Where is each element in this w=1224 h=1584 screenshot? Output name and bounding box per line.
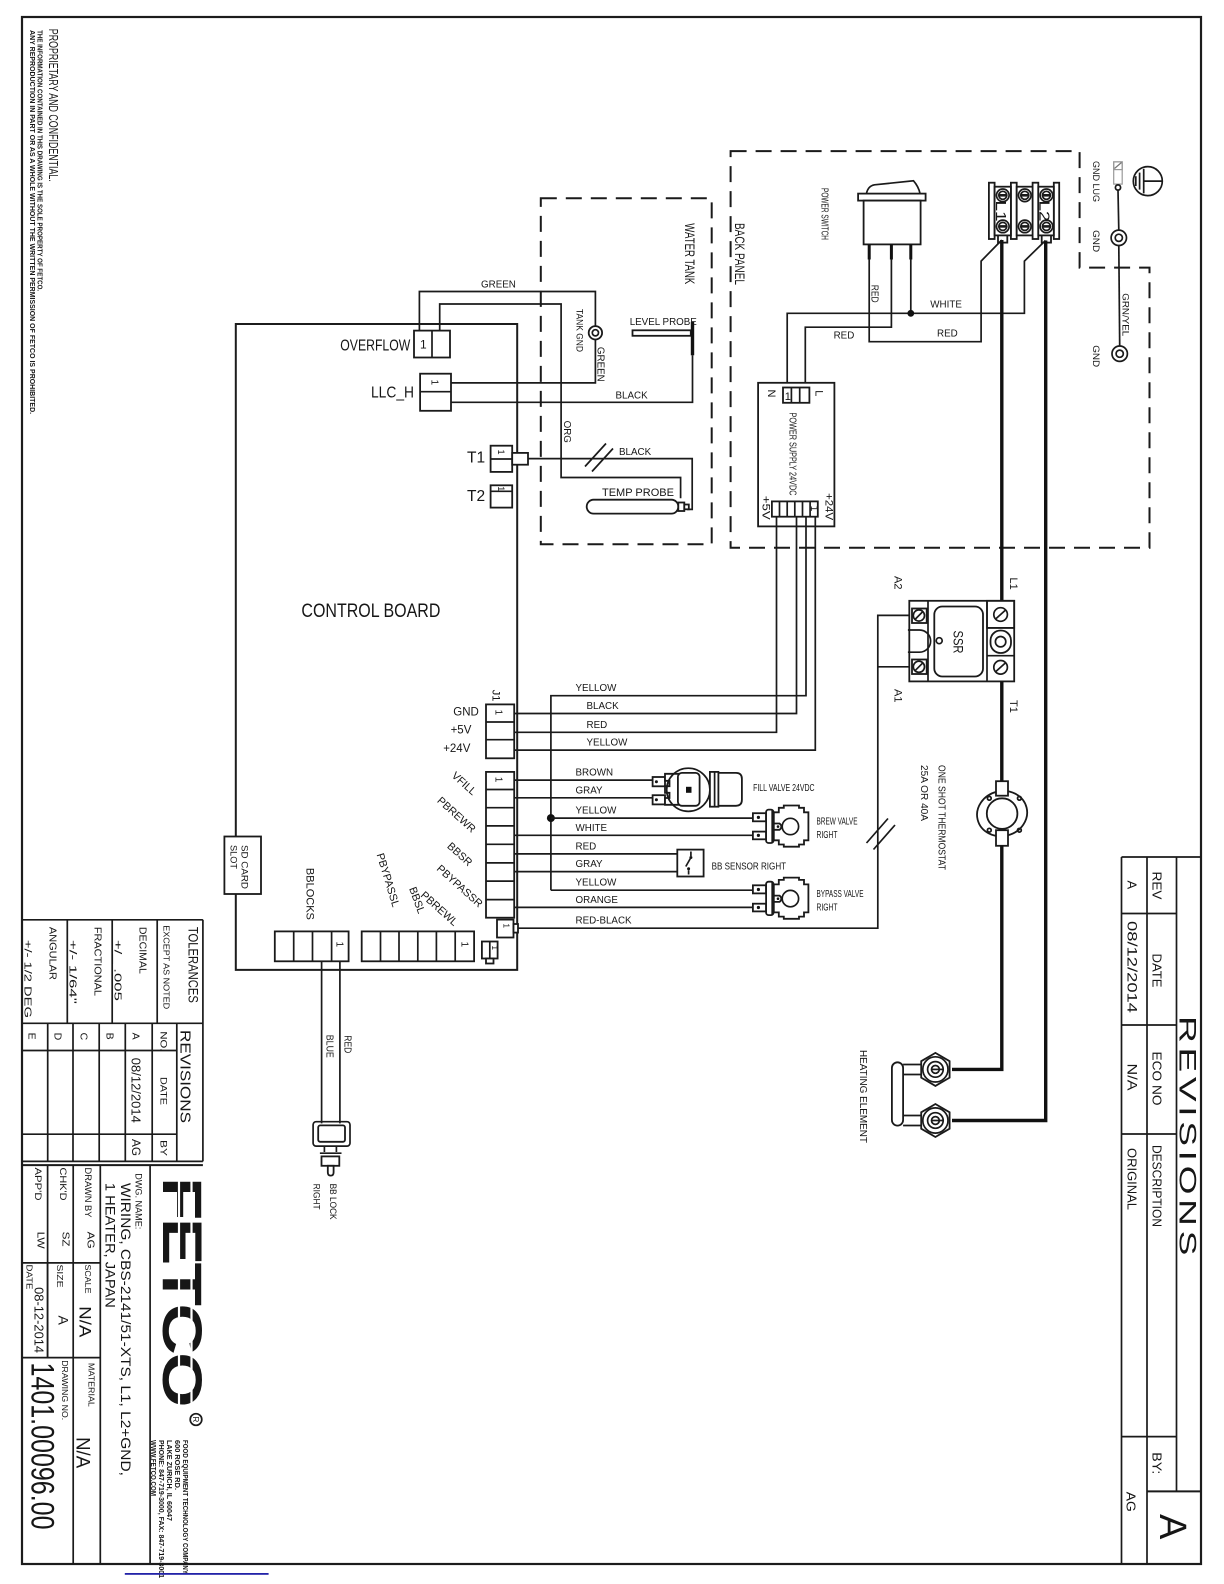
svg-text:DWG. NAME:: DWG. NAME: bbox=[134, 1173, 144, 1229]
svg-text:ANY REPRODUCTION IN PART OR AS: ANY REPRODUCTION IN PART OR AS A WHOLE W… bbox=[28, 30, 35, 414]
svg-text:FILL VALVE 24VDC: FILL VALVE 24VDC bbox=[753, 783, 815, 794]
svg-text:CHK'D: CHK'D bbox=[58, 1168, 68, 1202]
wire org from OVERFLOW pin2 down to temp probe bbox=[440, 304, 681, 498]
svg-text:1: 1 bbox=[459, 942, 470, 948]
terminal screws bbox=[997, 189, 1053, 233]
svg-text:SD CARD: SD CARD bbox=[240, 845, 250, 890]
svg-text:A: A bbox=[1151, 1514, 1193, 1540]
thick wire thermostat to heating element bbox=[952, 846, 1002, 1070]
wire yellow PSU to valves vertical net bbox=[551, 517, 806, 891]
svg-text:DATE: DATE bbox=[1150, 954, 1165, 988]
svg-text:BLUE: BLUE bbox=[324, 1035, 335, 1058]
wire white L2 to switch pin3 and PSU N bbox=[787, 241, 1045, 388]
wire gray J1-6 to bb sensor bbox=[514, 871, 677, 873]
crossover slashes on black wire bbox=[585, 444, 606, 467]
PSU input connector bbox=[783, 388, 809, 403]
svg-text:DESCRIPTION: DESCRIPTION bbox=[1150, 1145, 1165, 1227]
wire orange J1-8 to bypass valve bbox=[514, 906, 753, 908]
wire grn/yel ring1 to ring2 bbox=[1118, 246, 1121, 347]
connector left 6 pins bbox=[362, 931, 474, 961]
wire gray J1-2 to fill valve bbox=[514, 797, 652, 799]
title block grid bbox=[22, 1165, 203, 1564]
svg-text:GRAY: GRAY bbox=[576, 859, 604, 870]
svg-text:1: 1 bbox=[490, 946, 499, 951]
wire black from LLC_H pin2 to level probe bbox=[451, 355, 693, 402]
svg-text:+5V: +5V bbox=[451, 725, 472, 737]
svg-text:DATE: DATE bbox=[158, 1077, 169, 1105]
svg-text:BLACK: BLACK bbox=[587, 701, 620, 712]
svg-text:BLACK: BLACK bbox=[619, 447, 652, 458]
svg-text:RIGHT: RIGHT bbox=[817, 902, 838, 913]
svg-text:T1: T1 bbox=[1007, 700, 1019, 713]
svg-text:WATER TANK: WATER TANK bbox=[682, 223, 697, 284]
thick wire L1 down to SSR bbox=[1000, 240, 1003, 602]
wire brown J1-1 to fill valve bbox=[514, 779, 652, 781]
one shot thermostat bbox=[972, 781, 1032, 846]
tank gnd ring terminal bbox=[589, 326, 602, 339]
svg-text:L: L bbox=[813, 390, 825, 396]
svg-text:T2: T2 bbox=[467, 488, 485, 505]
svg-text:SIZE: SIZE bbox=[55, 1265, 65, 1288]
wire white J1-4 to brew valve bbox=[514, 834, 753, 836]
svg-text:GRN/YEL: GRN/YEL bbox=[1120, 293, 1131, 336]
svg-text:A: A bbox=[1125, 881, 1140, 890]
svg-text:GND LUG: GND LUG bbox=[1090, 161, 1101, 202]
svg-text:BY:: BY: bbox=[1150, 1452, 1165, 1474]
revisions table (right) bbox=[1122, 857, 1202, 1564]
connector PBREWL aux bbox=[497, 920, 514, 938]
svg-text:RED-BLACK: RED-BLACK bbox=[576, 916, 633, 927]
svg-text:RED: RED bbox=[869, 285, 880, 303]
svg-text:BLACK: BLACK bbox=[616, 391, 649, 402]
svg-text:08-12-2014: 08-12-2014 bbox=[32, 1287, 47, 1353]
svg-text:FRACTIONAL: FRACTIONAL bbox=[92, 927, 104, 996]
heating element bbox=[892, 1053, 950, 1137]
GND LUG symbol bbox=[1114, 162, 1123, 190]
wire yellow to brew valve bbox=[551, 817, 753, 819]
svg-text:DECIMAL: DECIMAL bbox=[137, 927, 149, 974]
connector T2 bbox=[491, 485, 513, 507]
svg-text:ONE SHOT THERMOSTAT: ONE SHOT THERMOSTAT bbox=[936, 765, 948, 870]
svg-text:TEMP PROBE: TEMP PROBE bbox=[602, 487, 674, 499]
GND ring terminal 2 bbox=[1112, 346, 1127, 361]
wire red L1 to switch pin1 bbox=[869, 240, 1002, 342]
bb lock right bbox=[313, 1122, 350, 1176]
svg-text:SZ: SZ bbox=[60, 1232, 72, 1248]
svg-text:1: 1 bbox=[493, 710, 504, 716]
svg-text:RED: RED bbox=[587, 720, 608, 731]
svg-text:RIGHT: RIGHT bbox=[312, 1184, 322, 1210]
svg-text:08/12/2014: 08/12/2014 bbox=[129, 1058, 144, 1123]
svg-text:ORG: ORG bbox=[561, 421, 572, 443]
svg-text:OVERFLOW: OVERFLOW bbox=[340, 337, 410, 354]
svg-text:RED: RED bbox=[937, 329, 958, 340]
power switch bbox=[858, 181, 926, 260]
svg-text:SCALE: SCALE bbox=[83, 1265, 93, 1294]
svg-text:YELLOW: YELLOW bbox=[576, 683, 618, 694]
junction dot yellow net bbox=[547, 814, 555, 822]
svg-text:REV: REV bbox=[1150, 872, 1165, 900]
svg-text:1: 1 bbox=[334, 942, 345, 948]
svg-text:1: 1 bbox=[420, 338, 427, 352]
SSR U1 bbox=[908, 601, 1014, 682]
wire yellow to bypass valve bbox=[551, 889, 753, 891]
svg-text:GREEN: GREEN bbox=[481, 280, 516, 291]
temp probe bbox=[587, 500, 679, 514]
junction dot switch pin3 bbox=[910, 259, 912, 313]
wire black PSU to J1 GND bbox=[514, 517, 796, 714]
svg-text:AG: AG bbox=[129, 1139, 143, 1156]
svg-text:CONTROL BOARD: CONTROL BOARD bbox=[301, 601, 440, 622]
svg-text:A: A bbox=[56, 1316, 72, 1326]
wire red switch pin2 to PSU L bbox=[805, 259, 891, 388]
tolerances table bbox=[22, 920, 203, 1162]
terminal tabs bbox=[998, 235, 1007, 242]
svg-text:RED: RED bbox=[834, 331, 855, 342]
level probe bbox=[633, 330, 691, 336]
svg-text:R: R bbox=[191, 1417, 200, 1423]
thick wire SSR T1 to thermostat bbox=[1000, 681, 1003, 782]
connector OVERFLOW on control board bbox=[414, 331, 450, 358]
svg-text:1: 1 bbox=[785, 391, 791, 403]
svg-text:A: A bbox=[130, 1033, 142, 1040]
back panel dashed enclosure bbox=[731, 151, 1150, 548]
svg-text:L2: L2 bbox=[1036, 201, 1053, 222]
svg-text:WWW.FETCO.COM: WWW.FETCO.COM bbox=[149, 1440, 156, 1496]
svg-text:GND: GND bbox=[1090, 230, 1101, 252]
svg-text:T1: T1 bbox=[467, 450, 485, 467]
wire green from tank gnd ring to LLC_H pin1 bbox=[451, 340, 595, 383]
svg-text:1: 1 bbox=[808, 506, 819, 512]
wire gnd lug to ring 1 bbox=[1117, 190, 1120, 230]
svg-text:1: 1 bbox=[429, 380, 440, 386]
svg-text:DRAWING NO.: DRAWING NO. bbox=[60, 1360, 70, 1420]
svg-text:WIRING, CBS-2141/51-XTS, L1,: WIRING, CBS-2141/51-XTS, L1, L2+GND, bbox=[118, 1183, 134, 1476]
GND ring terminal 1 bbox=[1111, 230, 1126, 245]
svg-text:WHITE: WHITE bbox=[576, 823, 608, 834]
svg-text:C: C bbox=[78, 1033, 90, 1041]
wire red BBLOCKS to bb lock bbox=[339, 961, 341, 1123]
svg-text:BY: BY bbox=[158, 1140, 169, 1157]
svg-text:DATE: DATE bbox=[25, 1265, 35, 1290]
svg-text:ANGULAR: ANGULAR bbox=[47, 927, 59, 980]
svg-text:A1: A1 bbox=[892, 689, 904, 702]
svg-text:1: 1 bbox=[496, 450, 506, 455]
svg-text:YELLOW: YELLOW bbox=[576, 806, 618, 817]
svg-text:+/_ .005: +/_ .005 bbox=[112, 940, 124, 1001]
svg-text:1: 1 bbox=[493, 777, 504, 783]
svg-text:25A OR 40A: 25A OR 40A bbox=[918, 765, 930, 821]
svg-text:BB SENSOR RIGHT: BB SENSOR RIGHT bbox=[712, 862, 787, 873]
svg-text:APP'D: APP'D bbox=[33, 1168, 43, 1202]
water tank dashed enclosure bbox=[541, 198, 712, 544]
svg-text:ECO NO: ECO NO bbox=[1150, 1052, 1165, 1106]
svg-text:+/- 1/2 DEG: +/- 1/2 DEG bbox=[22, 940, 34, 1018]
bypass valve right bbox=[753, 878, 809, 919]
bb sensor right bbox=[677, 850, 703, 877]
svg-text:L1: L1 bbox=[992, 201, 1009, 222]
svg-text:TANK GND: TANK GND bbox=[574, 309, 585, 352]
svg-text:N/A: N/A bbox=[1125, 1064, 1140, 1091]
svg-text:BB LOCK: BB LOCK bbox=[328, 1184, 338, 1220]
svg-text:LLC_H: LLC_H bbox=[371, 385, 414, 402]
svg-text:REVISIONS: REVISIONS bbox=[177, 1030, 194, 1123]
svg-text:BACK PANEL: BACK PANEL bbox=[732, 223, 747, 285]
PSU output connector bbox=[772, 501, 818, 516]
earth ground symbol bbox=[1133, 167, 1162, 196]
svg-text:600 ROSE RD.: 600 ROSE RD. bbox=[173, 1440, 180, 1490]
blue underline mark bbox=[125, 1573, 269, 1575]
wire red-black to SSR A1/A2 bbox=[518, 615, 912, 928]
svg-text:J1: J1 bbox=[490, 690, 502, 702]
svg-text:LW: LW bbox=[35, 1232, 47, 1249]
svg-text:AG: AG bbox=[1124, 1492, 1139, 1512]
svg-text:1 HEATER, JAPAN: 1 HEATER, JAPAN bbox=[103, 1183, 119, 1308]
connector T1 bbox=[491, 446, 513, 472]
svg-text:A2: A2 bbox=[892, 576, 904, 589]
brew valve right bbox=[753, 806, 809, 847]
svg-text:BYPASS VALVE: BYPASS VALVE bbox=[817, 889, 864, 900]
svg-text:+24V: +24V bbox=[443, 743, 471, 755]
svg-text:YELLOW: YELLOW bbox=[576, 878, 618, 889]
svg-text:PROPRIETARY AND CONFIDENTIAL.: PROPRIETARY AND CONFIDENTIAL. bbox=[46, 29, 60, 182]
svg-text:SSR: SSR bbox=[951, 631, 967, 654]
svg-text:NO.: NO. bbox=[158, 1031, 169, 1051]
fill valve 24VDC bbox=[653, 768, 742, 811]
connector J1 lower group 8 pins bbox=[486, 772, 514, 918]
svg-text:REVISIONS: REVISIONS bbox=[1174, 1016, 1201, 1260]
wire black from T1 to temp probe bbox=[528, 459, 692, 510]
svg-text:GND: GND bbox=[453, 706, 479, 718]
svg-text:ORIGINAL: ORIGINAL bbox=[1125, 1148, 1140, 1210]
svg-text:RED: RED bbox=[342, 1035, 353, 1053]
svg-text:EXCEPT AS NOTED: EXCEPT AS NOTED bbox=[162, 925, 172, 1009]
svg-text:SLOT: SLOT bbox=[229, 845, 239, 870]
svg-text:LAKE ZURICH, IL 60047: LAKE ZURICH, IL 60047 bbox=[165, 1440, 172, 1521]
svg-text:08/12/2014: 08/12/2014 bbox=[1125, 921, 1140, 1014]
svg-text:PHONE: 847-719-3000, FAX: 847-: PHONE: 847-719-3000, FAX: 847-719-3001 bbox=[157, 1440, 164, 1578]
control board outline bbox=[236, 324, 517, 970]
wire blue BBLOCKS to bb lock bbox=[321, 961, 323, 1123]
wire green from OVERFLOW pin1 to tank gnd ring bbox=[419, 292, 595, 331]
svg-text:FOOD EQUIPMENT TECHNOLOGY COMP: FOOD EQUIPMENT TECHNOLOGY COMPANY bbox=[181, 1440, 188, 1574]
revisions (left) table bbox=[22, 1023, 203, 1161]
svg-text:FETCO: FETCO bbox=[151, 1177, 214, 1406]
svg-text:GRAY: GRAY bbox=[576, 785, 604, 796]
svg-text:1401.00096.00: 1401.00096.00 bbox=[25, 1363, 61, 1530]
svg-text:+/- 1/64": +/- 1/64" bbox=[67, 940, 79, 1004]
svg-text:TOLERANCES: TOLERANCES bbox=[186, 927, 202, 1003]
svg-text:MATERIAL: MATERIAL bbox=[87, 1363, 97, 1407]
svg-text:POWER SUPPLY 24VDC: POWER SUPPLY 24VDC bbox=[786, 413, 798, 496]
svg-text:LEVEL PROBE: LEVEL PROBE bbox=[630, 317, 698, 328]
svg-text:ORANGE: ORANGE bbox=[576, 895, 619, 906]
svg-text:L1: L1 bbox=[1007, 578, 1019, 590]
svg-text:B: B bbox=[104, 1033, 116, 1040]
wire yellow PSU to J1 +24V bbox=[514, 517, 815, 750]
connector J1 upper group bbox=[486, 704, 514, 758]
connector BBLOCKS bbox=[275, 931, 349, 961]
svg-text:+24V: +24V bbox=[823, 493, 835, 521]
svg-text:POWER SWITCH: POWER SWITCH bbox=[819, 188, 831, 240]
svg-text:BBLOCKS: BBLOCKS bbox=[304, 868, 316, 920]
svg-text:GREEN: GREEN bbox=[595, 347, 606, 382]
thick wire L2 down to heating element bbox=[952, 241, 1046, 1121]
svg-text:E: E bbox=[26, 1033, 38, 1040]
connector aux B bbox=[482, 942, 498, 959]
terminal block TB1 bbox=[989, 183, 1059, 239]
svg-text:AG: AG bbox=[85, 1232, 97, 1249]
svg-text:BROWN: BROWN bbox=[576, 768, 614, 779]
svg-text:BREW VALVE: BREW VALVE bbox=[817, 816, 858, 827]
wire red J1-5 to bb sensor bbox=[514, 853, 677, 855]
svg-text:RIGHT: RIGHT bbox=[817, 830, 838, 841]
SD card slot box bbox=[224, 837, 261, 895]
svg-text:1: 1 bbox=[502, 924, 511, 929]
svg-text:1: 1 bbox=[496, 486, 506, 491]
svg-text:THE INFORMATION CONTAINED IN T: THE INFORMATION CONTAINED IN THIS DRAWIN… bbox=[36, 30, 43, 291]
svg-text:GND: GND bbox=[1090, 345, 1101, 367]
svg-text:N/A: N/A bbox=[72, 1437, 93, 1468]
svg-text:DRAWN BY: DRAWN BY bbox=[83, 1168, 93, 1218]
connector LLC_H bbox=[420, 374, 451, 411]
svg-text:+5V: +5V bbox=[760, 496, 772, 521]
svg-text:N/A: N/A bbox=[76, 1306, 95, 1338]
crossover slashes on A1 wire bbox=[867, 819, 889, 844]
svg-text:RED: RED bbox=[576, 841, 597, 852]
svg-text:YELLOW: YELLOW bbox=[587, 738, 629, 749]
svg-text:HEATING ELEMENT: HEATING ELEMENT bbox=[857, 1050, 869, 1144]
wire red PSU to J1 +5V bbox=[514, 517, 776, 733]
svg-text:D: D bbox=[52, 1033, 64, 1041]
power supply 24VDC box bbox=[758, 383, 834, 527]
svg-text:N: N bbox=[765, 390, 777, 398]
svg-text:WHITE: WHITE bbox=[930, 300, 962, 311]
